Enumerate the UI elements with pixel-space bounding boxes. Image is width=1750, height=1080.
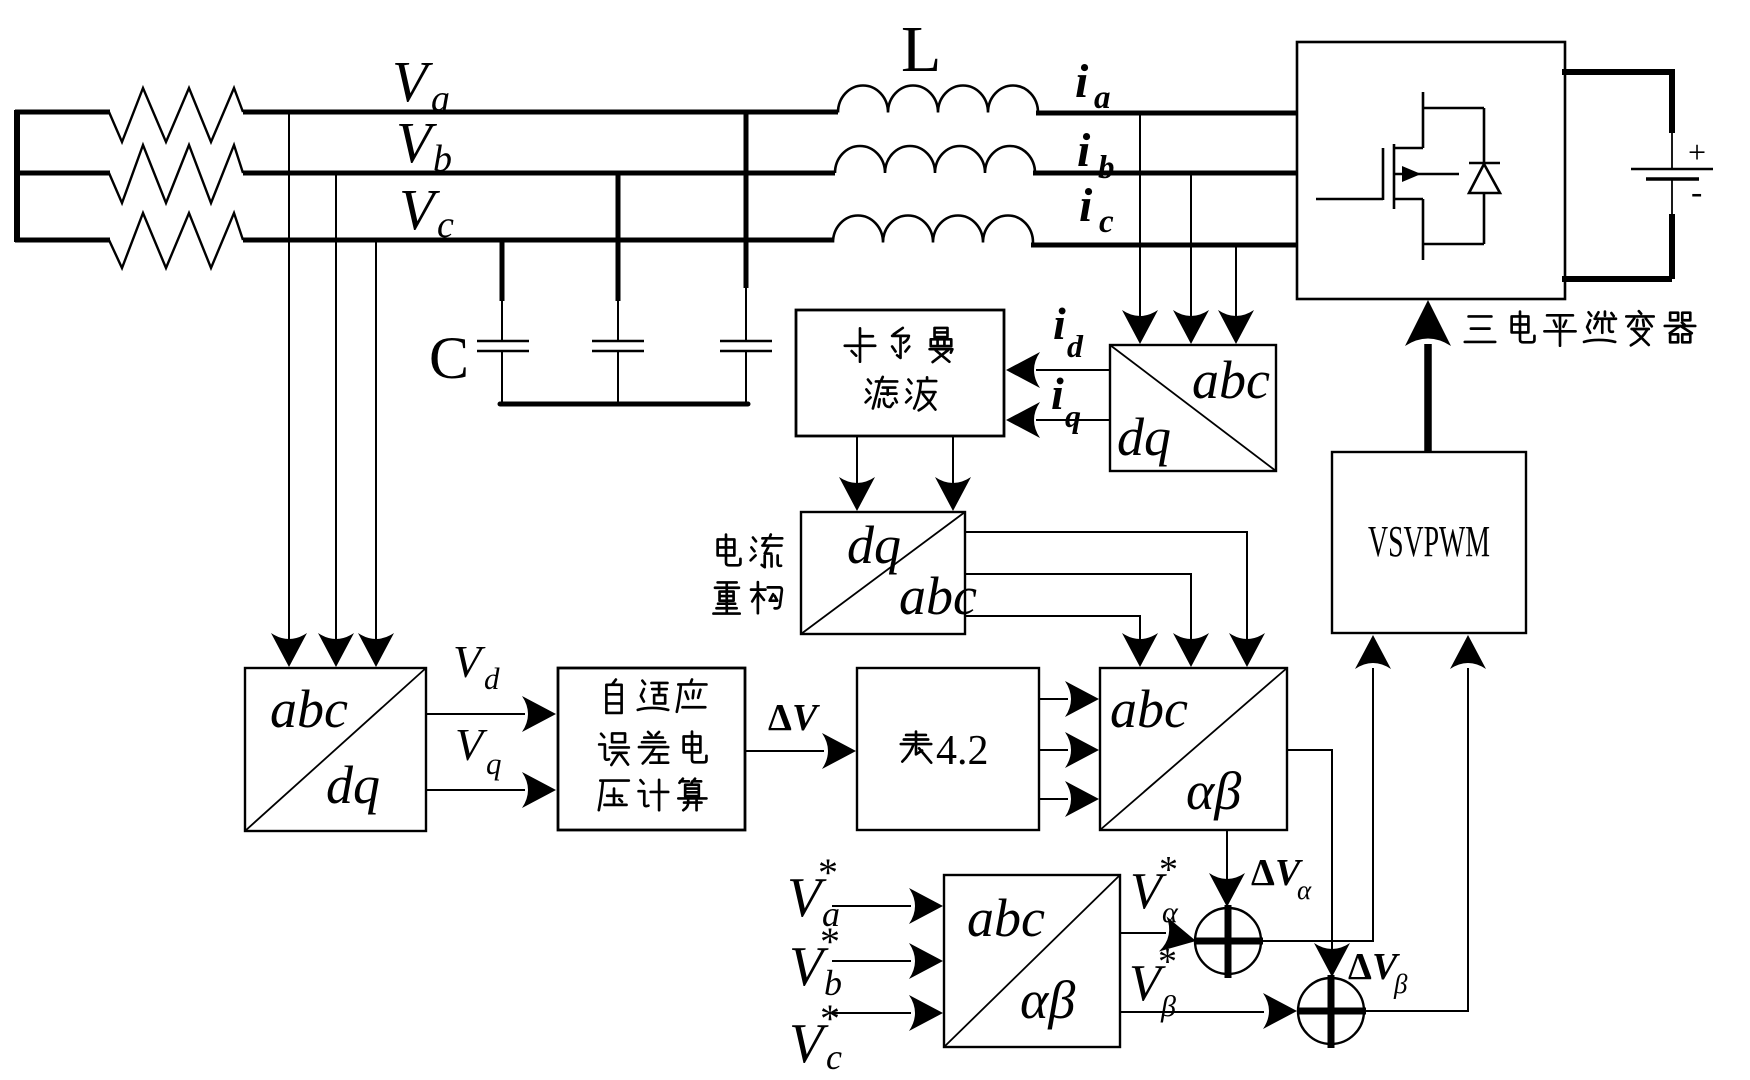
label Va* xyxy=(787,850,840,934)
label Valpha* xyxy=(1130,849,1179,929)
block abc-dq current transform xyxy=(1110,345,1276,471)
svg-text:*: * xyxy=(1158,941,1177,983)
svg-text:V: V xyxy=(453,636,486,687)
svg-text:dq: dq xyxy=(1117,407,1171,467)
capacitor C3 (phase a) xyxy=(720,113,772,404)
inductor La xyxy=(838,85,1038,112)
wire phase b bus (Vb) xyxy=(243,171,835,176)
label Vb xyxy=(396,110,452,180)
label ia xyxy=(1075,55,1111,116)
svg-text:i: i xyxy=(1075,55,1089,108)
wire DC positive xyxy=(1562,72,1672,133)
svg-text:Δ: Δ xyxy=(768,697,792,739)
label Vb* xyxy=(789,919,842,1003)
wire phase c after L xyxy=(1031,243,1298,248)
label delta V alpha xyxy=(1251,852,1312,905)
svg-text:αβ: αβ xyxy=(1186,761,1241,821)
wire left bus vertical xyxy=(14,110,20,242)
svg-text:c: c xyxy=(826,1037,842,1077)
svg-text:Δ: Δ xyxy=(1251,852,1275,894)
block table 4.2 xyxy=(857,668,1039,830)
label iq xyxy=(1051,368,1081,434)
wire phase c source stub xyxy=(15,238,110,243)
diode D1 xyxy=(1469,108,1500,244)
wire capacitor neutral rail xyxy=(500,402,748,407)
svg-text:abc: abc xyxy=(967,888,1045,948)
block abc-alphabeta lower xyxy=(944,875,1120,1047)
wire Vc* xyxy=(832,995,943,1031)
svg-text:αβ: αβ xyxy=(1020,970,1075,1030)
svg-text:*: * xyxy=(820,996,840,1041)
inductor Lb xyxy=(835,146,1035,173)
svg-text:q: q xyxy=(486,746,502,781)
wire DC negative xyxy=(1562,214,1672,279)
svg-text:abc: abc xyxy=(1192,350,1270,410)
label ib xyxy=(1077,124,1115,186)
label Vc xyxy=(399,177,454,246)
label Kalman filter text (CJK) xyxy=(845,328,953,410)
wire reconstructed ia xyxy=(965,532,1265,667)
label Vbeta* xyxy=(1129,941,1177,1023)
svg-text:q: q xyxy=(1065,398,1081,434)
wire table out 1 xyxy=(1039,681,1099,717)
svg-text:d: d xyxy=(484,661,500,696)
label Vd xyxy=(453,636,500,696)
svg-text:*: * xyxy=(818,850,838,895)
wire Va* xyxy=(832,888,943,924)
svg-text:β: β xyxy=(1393,969,1408,999)
label Va xyxy=(392,49,450,120)
svg-text:C: C xyxy=(429,325,469,391)
label table 4.2 (CJK+digits) xyxy=(901,728,989,774)
wire VSVPWM to inverter xyxy=(1405,300,1451,452)
block dq-abc current reconstruction xyxy=(801,512,977,634)
label ic xyxy=(1079,179,1114,240)
svg-text:abc: abc xyxy=(270,679,348,739)
wire Va sense tap xyxy=(271,112,307,667)
wire Vd xyxy=(426,696,556,732)
wire Vc sense tap xyxy=(358,240,394,667)
wire id xyxy=(1006,352,1110,388)
block abc-dq voltage transform xyxy=(245,668,426,831)
wire ia sense tap xyxy=(1122,113,1158,344)
wire S1 to VSVPWM xyxy=(1261,635,1391,941)
svg-text:a: a xyxy=(431,78,450,120)
svg-text:c: c xyxy=(1099,204,1114,240)
wire table out 2 xyxy=(1039,732,1099,768)
wire delta V alpha xyxy=(1209,830,1245,907)
battery B1 xyxy=(1631,133,1713,214)
svg-text:VSVPWM: VSVPWM xyxy=(1368,517,1490,566)
inverter box U1 xyxy=(1297,42,1565,299)
wire iq xyxy=(1006,402,1110,438)
svg-text:c: c xyxy=(437,204,454,246)
svg-text:dq: dq xyxy=(847,515,901,575)
wire Vb sense tap xyxy=(318,173,354,667)
wire reconstructed ib xyxy=(965,574,1209,667)
svg-text:dq: dq xyxy=(326,755,380,815)
wire Valpha* xyxy=(1120,916,1200,958)
wire Vbeta* xyxy=(1120,993,1297,1029)
capacitor C1 (phase c) xyxy=(477,240,529,404)
block VSVPWM xyxy=(1332,452,1526,633)
wire phase a source stub xyxy=(15,110,110,115)
summing junction S2 xyxy=(1297,975,1366,1048)
wire table out 3 xyxy=(1039,781,1099,817)
wire phase b source stub xyxy=(15,171,110,176)
svg-text:Δ: Δ xyxy=(1348,946,1372,988)
block adaptive error voltage calculation xyxy=(558,668,745,830)
label three-level inverter (CJK) xyxy=(1465,311,1695,346)
label id xyxy=(1053,298,1084,364)
svg-text:V: V xyxy=(455,719,488,770)
wire S2 to VSVPWM xyxy=(1364,635,1486,1011)
wire phase c bus (Vc) xyxy=(243,238,833,243)
wire phase a after L xyxy=(1036,111,1298,116)
svg-text:L: L xyxy=(901,13,941,86)
svg-text:*: * xyxy=(1159,849,1178,891)
block abc-alphabeta upper xyxy=(1100,668,1287,830)
label Vc* xyxy=(789,996,842,1077)
inductor Lc xyxy=(833,216,1033,243)
wire Vb* xyxy=(832,943,943,979)
label delta V beta xyxy=(1348,946,1408,999)
label delta V xyxy=(768,697,820,739)
label adaptive error voltage calculation (CJK) xyxy=(599,680,707,811)
wire phase a bus (Va) xyxy=(243,110,838,115)
summing junction S1 xyxy=(1194,905,1263,978)
svg-text:β: β xyxy=(1160,990,1176,1023)
wire phase b after L xyxy=(1033,171,1298,176)
svg-text:i: i xyxy=(1053,298,1066,349)
resistor Ra xyxy=(109,88,243,142)
transistor Q1 xyxy=(1316,92,1484,260)
svg-text:*: * xyxy=(820,919,840,964)
wire ic sense tap xyxy=(1218,245,1254,344)
resistor Rc xyxy=(109,213,243,268)
wire Kalman out q xyxy=(935,436,971,511)
wire reconstructed ic xyxy=(965,616,1158,667)
block Kalman filter xyxy=(796,310,1004,436)
svg-text:d: d xyxy=(1067,328,1084,364)
svg-text:b: b xyxy=(1098,150,1115,186)
svg-text:α: α xyxy=(1297,875,1312,905)
svg-text:V: V xyxy=(792,697,820,739)
wire Vq xyxy=(426,772,556,808)
svg-text:abc: abc xyxy=(1110,679,1188,739)
svg-text:i: i xyxy=(1079,179,1093,232)
resistor Rb xyxy=(109,145,243,203)
svg-text:i: i xyxy=(1051,368,1064,419)
capacitor C2 (phase b) xyxy=(592,173,644,404)
label Vq xyxy=(455,719,502,781)
wire delta V xyxy=(745,733,856,769)
svg-text:-: - xyxy=(1691,174,1702,211)
svg-text:b: b xyxy=(433,138,452,180)
wire ib sense tap xyxy=(1173,173,1209,344)
svg-text:a: a xyxy=(1094,80,1111,116)
label current reconstruction (CJK) xyxy=(713,535,782,614)
wire delta V beta xyxy=(1287,750,1350,977)
svg-text:i: i xyxy=(1077,124,1091,177)
wire Kalman out d xyxy=(839,436,875,511)
svg-text:+: + xyxy=(1688,134,1706,170)
svg-text:4.2: 4.2 xyxy=(936,728,989,774)
